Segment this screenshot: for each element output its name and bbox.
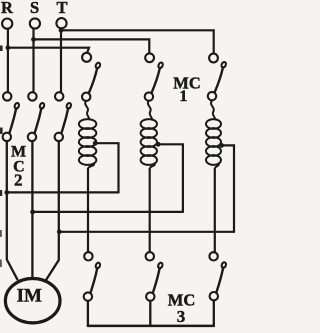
wire motor line2 xyxy=(31,141,33,278)
svg-text:IM: IM xyxy=(17,286,42,307)
wire T feeder to MC1 pole3 xyxy=(61,30,214,53)
motor IM xyxy=(5,279,60,323)
wire S feeder to MC1 pole2 xyxy=(34,39,150,53)
svg-text:2: 2 xyxy=(14,171,23,190)
contactor MC3 pole 1 xyxy=(84,252,101,301)
wire motor line3 xyxy=(47,141,59,279)
wire coil1 bottom to MC3 pole1 xyxy=(87,169,89,252)
reactor coil L1 xyxy=(79,101,96,169)
node tap L3 xyxy=(219,143,224,148)
wire bus1 xyxy=(7,191,119,193)
label MC1 xyxy=(173,73,201,105)
wire R feeder to MC1 pole1 xyxy=(8,48,89,53)
wire bus2 xyxy=(33,211,183,213)
wire MC3 pole3 to star bus xyxy=(213,300,215,326)
wire R vertical to MC2 xyxy=(7,29,9,93)
scan smudge 3 xyxy=(0,190,2,196)
svg-text:R: R xyxy=(1,0,14,17)
wire S vertical to MC2 xyxy=(32,29,34,93)
contactor MC1 pole R xyxy=(82,53,101,101)
scan smudge 5 xyxy=(0,260,2,268)
node tap L1 xyxy=(93,141,98,146)
node T feeder junction xyxy=(59,28,64,33)
contactor MC2 pole T xyxy=(55,92,72,141)
contactor MC3 pole 2 xyxy=(146,252,164,301)
contactor MC3 pole 3 xyxy=(209,252,226,300)
scan smudge 4 xyxy=(0,230,2,237)
wire coil2 bottom to MC3 pole2 xyxy=(149,169,151,252)
node tap L2 xyxy=(156,142,161,147)
wire bus3 xyxy=(59,231,234,233)
scan smudge 2 xyxy=(0,128,3,135)
reactor coil L2 xyxy=(141,101,157,169)
contactor MC1 pole S xyxy=(145,53,164,100)
terminal R xyxy=(2,19,12,29)
wire motor line1 xyxy=(7,141,17,279)
wire coil3 bottom to MC3 pole3 xyxy=(214,169,215,252)
wire MC3 pole2 to star bus xyxy=(149,301,151,326)
contactor MC2 pole R xyxy=(3,92,20,141)
label MC3 xyxy=(168,290,196,326)
wire T vertical to MC2 xyxy=(60,29,62,93)
svg-text:3: 3 xyxy=(177,307,186,326)
node S feeder junction xyxy=(31,37,36,42)
node bus2 junction xyxy=(30,210,35,215)
svg-text:T: T xyxy=(56,0,67,17)
label MC2 xyxy=(11,144,26,190)
wire MC3 pole1 to star bus xyxy=(87,301,89,326)
wire tap1 to bus1 xyxy=(95,143,118,192)
contactor MC1 pole T xyxy=(208,54,227,101)
scan smudge 1 xyxy=(0,46,3,52)
svg-text:1: 1 xyxy=(179,88,187,105)
terminal S xyxy=(30,18,40,28)
node bus1 junction xyxy=(4,190,9,195)
svg-text:S: S xyxy=(30,0,39,17)
contactor MC2 pole S xyxy=(28,92,45,141)
terminal T xyxy=(56,18,66,28)
node bus3 junction xyxy=(57,229,62,234)
wire tap3 to bus3 xyxy=(222,145,234,231)
wire star point bus xyxy=(88,325,214,328)
node R feeder junction xyxy=(6,45,11,50)
wire tap2 to bus2 xyxy=(158,144,183,212)
reactor coil L3 xyxy=(206,101,221,169)
